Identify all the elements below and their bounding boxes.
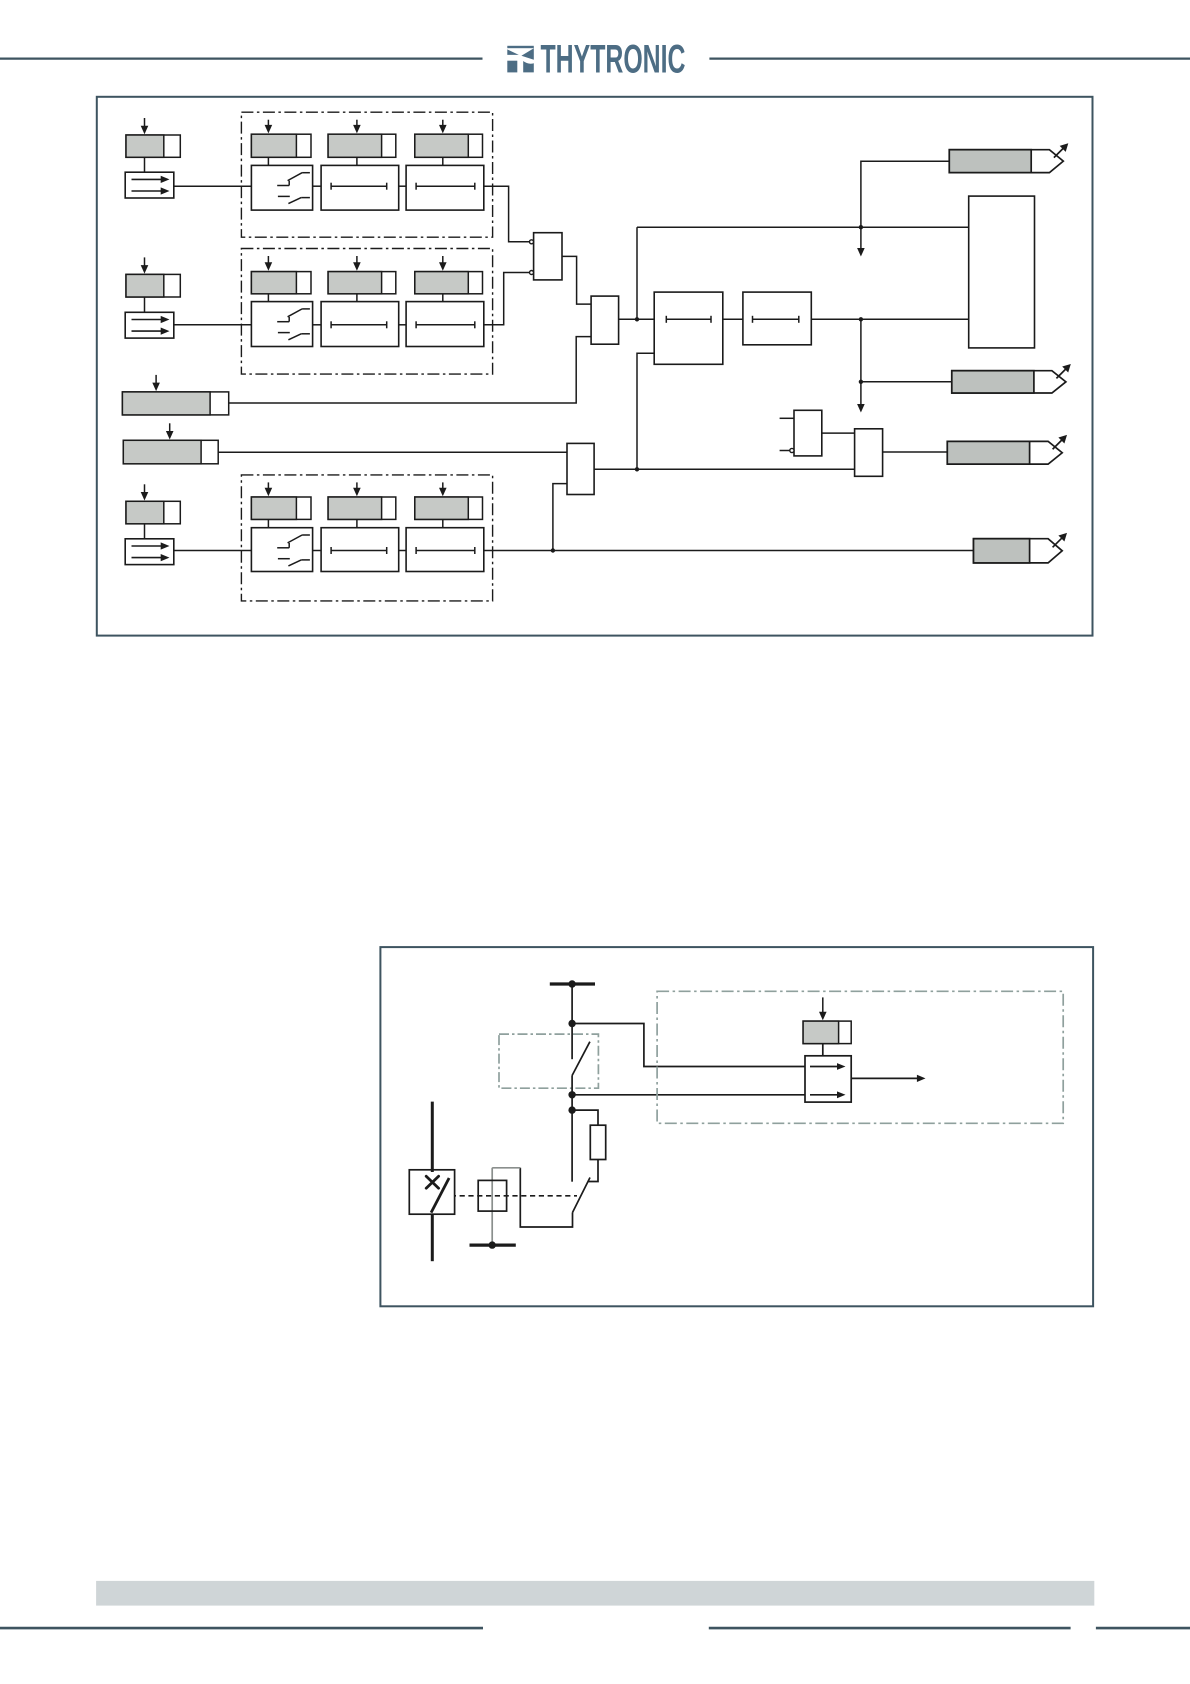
CT secondary gray wire vertical bbox=[491, 1168, 493, 1245]
stage 3 measure-to-comparator wire bbox=[174, 550, 252, 552]
footer gray bar bbox=[96, 1581, 1094, 1606]
main feeder wire below switch bbox=[571, 1076, 573, 1182]
busbar bbox=[550, 982, 595, 985]
busbar junction bbox=[568, 980, 575, 987]
gate U3 (enable AND) bbox=[567, 443, 594, 494]
stage 3 element 2 setting box bbox=[328, 482, 396, 519]
stage 2 timer1-to-timer2 wire bbox=[399, 324, 406, 326]
recloser output arrow wire bbox=[851, 1077, 917, 1079]
stage 3 tap wire to U3 bbox=[553, 484, 567, 551]
node D junction bbox=[859, 380, 863, 384]
stage 2 element 1 setting box bbox=[251, 256, 311, 294]
stage 3 comparator block bbox=[251, 528, 312, 572]
stage 1 timer block 1 bbox=[321, 165, 399, 210]
block diagram frame bbox=[97, 97, 1093, 636]
node V1 junction bbox=[568, 1020, 575, 1027]
stage 3 measuring element bbox=[125, 539, 174, 565]
stage 2 timer block 2 bbox=[406, 302, 484, 347]
stage 3 element 2 setting stub bbox=[356, 519, 358, 527]
stage 3 output flag bbox=[974, 533, 1068, 563]
stage 3 comparator-to-timer wire bbox=[313, 550, 322, 552]
stage 2 element 1 setting stub bbox=[267, 294, 269, 302]
footer rule segment 1 bbox=[0, 1627, 483, 1630]
footer rule segment 2 bbox=[709, 1627, 1071, 1630]
stage 2 timer block 1 bbox=[321, 302, 399, 347]
node B junction bbox=[859, 225, 863, 229]
resistor R1 bbox=[590, 1125, 605, 1159]
U4 output wire to U5 bbox=[822, 432, 855, 434]
Thytronic logo icon bbox=[507, 46, 534, 73]
enable bar wire to gate U3 bbox=[218, 451, 567, 453]
wire V3 to resistor bbox=[572, 1110, 598, 1125]
wire node B to start flag bbox=[861, 161, 949, 227]
stage 2 element 2 setting box bbox=[328, 256, 396, 294]
node D dangling down arrow bbox=[857, 382, 865, 413]
U1 output wire to gate U2 bbox=[562, 256, 591, 304]
main timer block 1 bbox=[654, 292, 723, 364]
node V2 junction bbox=[568, 1091, 575, 1098]
stage 3 element 1 setting box bbox=[251, 482, 311, 519]
recloser output arrowhead bbox=[917, 1075, 926, 1082]
stage 2 element 2 setting stub bbox=[356, 294, 358, 302]
CT secondary gray wire horizontal bbox=[492, 1167, 520, 1169]
stage 1 measuring element bbox=[125, 172, 174, 198]
stage 3 element 1 setting stub bbox=[267, 519, 269, 527]
stage 3 output wire to last flag bbox=[484, 550, 974, 552]
stage 1 timer block 2 bbox=[406, 165, 484, 210]
recloser measuring block bbox=[805, 1056, 851, 1102]
header rule left bbox=[0, 57, 483, 59]
stage 3 tap junction bbox=[551, 548, 555, 552]
blocking bar wire to gate U2 bbox=[229, 337, 591, 403]
stage 1 element 2 setting box bbox=[328, 120, 396, 158]
stage 1 timer1-to-timer2 wire bbox=[399, 185, 406, 187]
circuit breaker CB1 box bbox=[409, 1170, 454, 1214]
main timer block 2 bbox=[743, 292, 811, 345]
current transformer CT1 bbox=[478, 1180, 506, 1211]
CB1 blade (thick) bbox=[431, 1178, 449, 1213]
timer2 output wire to trip matrix bbox=[811, 318, 968, 320]
wire node D to trip flag bbox=[861, 381, 952, 383]
stage 2 comparator block bbox=[251, 302, 312, 347]
stage 1 element 3 setting box bbox=[415, 120, 483, 158]
trip output flag bbox=[952, 364, 1071, 393]
stage 1 setting-to-measure stub bbox=[144, 157, 146, 172]
U3 output wire to gate U5 bbox=[594, 468, 855, 470]
gate U5 (AND) bbox=[855, 429, 883, 477]
disconnector switch blade bbox=[572, 1042, 590, 1076]
stage 1 element 1 setting stub bbox=[267, 157, 269, 165]
node V3 junction bbox=[568, 1106, 575, 1113]
stage 3 timer1-to-timer2 wire bbox=[399, 550, 406, 552]
node A junction bbox=[635, 317, 639, 321]
stage 2 input setting box bbox=[126, 257, 180, 297]
stage 2 measure-to-comparator wire bbox=[174, 324, 252, 326]
stage 3 element 3 setting stub bbox=[442, 519, 444, 527]
wire V1 to relay block input 1 bbox=[572, 1024, 805, 1067]
wire node A to trip matrix (top) bbox=[637, 226, 969, 228]
stage 2 element 3 setting box bbox=[415, 256, 483, 294]
svg-text:THYTRONIC: THYTRONIC bbox=[541, 38, 686, 82]
application diagram frame bbox=[380, 947, 1093, 1306]
disconnector dash-dot box bbox=[499, 1034, 598, 1088]
auxiliary contact blade bbox=[573, 1178, 591, 1213]
trip matrix block bbox=[969, 196, 1035, 348]
mechanical link dashed line bbox=[442, 1195, 577, 1197]
stage 1 comparator-to-timer wire bbox=[313, 185, 322, 187]
node C junction bbox=[859, 317, 863, 321]
stage 2 setting-to-measure stub bbox=[144, 297, 146, 312]
relay function dash-dot box bbox=[657, 991, 1063, 1123]
timer1 reset wire from gate U3 bbox=[637, 353, 654, 469]
ground bar bbox=[470, 1243, 516, 1246]
stage 1 output wire to gate U1 bbox=[484, 186, 530, 242]
main vertical feeder wire bbox=[571, 984, 573, 1059]
start output flag bbox=[949, 143, 1068, 172]
stage 1 element 2 setting stub bbox=[356, 157, 358, 165]
node A vertical wire up bbox=[636, 227, 638, 319]
stage 2 dash-dot group box bbox=[241, 249, 492, 375]
stage 1 element 3 setting stub bbox=[442, 157, 444, 165]
recloser setting stub bbox=[822, 1044, 824, 1056]
enable input setting bar bbox=[123, 423, 218, 464]
timer1-to-timer2 wire bbox=[723, 318, 743, 320]
wire V2 to relay block input 2 bbox=[572, 1094, 805, 1096]
CB1 upper feeder (thick) bbox=[431, 1102, 434, 1172]
stage 2 measuring element bbox=[125, 312, 174, 338]
stage 2 output wire to gate U1 bbox=[484, 273, 530, 325]
node C vertical wire bbox=[860, 319, 862, 382]
stage 3 timer block 2 bbox=[406, 528, 484, 572]
wire resistor to contact bbox=[588, 1160, 598, 1182]
stage 3 timer block 1 bbox=[321, 528, 399, 572]
stage 3 input setting box bbox=[126, 484, 180, 524]
stage 1 measure-to-comparator wire bbox=[174, 185, 252, 187]
wire contact to CT secondary bbox=[520, 1168, 572, 1227]
footer rule segment 3 bbox=[1096, 1627, 1190, 1630]
stage 1 dash-dot group box bbox=[241, 112, 492, 237]
gate U4 (NOT, inverted input) bbox=[780, 410, 822, 456]
stage 3 dash-dot group box bbox=[241, 475, 492, 601]
stage 1 element 1 setting box bbox=[251, 120, 311, 158]
stage 3 setting-to-measure stub bbox=[144, 524, 146, 539]
header rule right bbox=[709, 57, 1190, 59]
node E junction bbox=[635, 467, 639, 471]
node B dangling down arrow bbox=[857, 227, 865, 256]
gate U1 (blocking logic, inverted inputs) bbox=[530, 233, 563, 280]
signal output flag bbox=[947, 435, 1067, 464]
stage 1 input setting box bbox=[126, 118, 180, 157]
stage 2 comparator-to-timer wire bbox=[313, 324, 322, 326]
stage 2 element 3 setting stub bbox=[442, 294, 444, 302]
blocking input setting bar bbox=[122, 375, 228, 415]
gate U2 (OR) bbox=[591, 296, 619, 344]
recloser setting box bbox=[803, 997, 851, 1043]
U5 output wire to flag bbox=[883, 451, 948, 453]
stage 1 comparator block bbox=[251, 165, 312, 210]
stage 3 element 3 setting box bbox=[415, 482, 483, 519]
CB1 X mark bbox=[426, 1176, 438, 1188]
U2 output wire bbox=[619, 318, 655, 320]
CB1 lower feeder (thick) bbox=[431, 1214, 434, 1261]
ground junction bbox=[489, 1241, 496, 1248]
